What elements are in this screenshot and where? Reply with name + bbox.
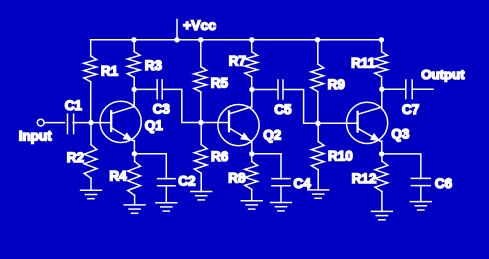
wire emitter node to C6 [382,154,421,179]
node Q2 collector junction [249,87,254,92]
wire base node to Q1 [91,122,111,124]
wire node to C3 [134,88,156,90]
svg-text:Output: Output [421,67,465,82]
wire +Vcc rail [90,39,381,41]
wire emitter node to C2 [134,154,166,179]
wire Q3 emitter to node [381,141,383,154]
ground C4 [271,203,292,211]
node Q2 emitter junction [249,151,254,156]
svg-text:R9: R9 [328,77,345,92]
junction R5 top [198,37,203,42]
resistor R10 [311,123,324,190]
resistor R8 [245,154,258,201]
capacitor C3 [157,80,162,99]
node Q3 emitter junction [379,151,384,156]
svg-text:R7: R7 [229,53,246,68]
svg-text:R10: R10 [328,149,353,164]
svg-text:R5: R5 [211,75,229,90]
resistor R9 [311,40,324,124]
capacitor C7 [406,80,412,99]
svg-text:+Vcc: +Vcc [183,17,216,33]
capacitor C2 [158,179,176,186]
svg-text:Q3: Q3 [391,127,410,142]
ground R8 [241,201,262,209]
ground R12 [372,211,393,219]
wire input to C1 [44,122,64,124]
svg-text:C7: C7 [402,102,419,117]
svg-text:Input: Input [19,128,52,143]
wire R7 to Q2 collector [251,90,253,108]
junction R7 top [249,37,254,42]
wire emitter node to C4 [252,154,281,179]
resistor R4 [128,154,141,205]
node Q3 collector junction [379,87,384,92]
wire C7 to output [412,88,433,90]
wire node to C7 [382,88,406,90]
capacitor C6 [411,178,430,185]
wire R11 to Q3 collector [381,89,383,106]
junction R11 top [379,37,384,42]
input terminal [37,119,44,126]
svg-text:Q2: Q2 [263,127,281,142]
node Q1 emitter junction [132,151,137,156]
svg-text:R6: R6 [211,149,229,164]
node Q2 base junction [198,120,203,125]
junction Vcc stub [174,37,179,42]
transistor Q1 [100,101,141,142]
resistor R2 [84,123,97,191]
capacitor C1 [68,114,74,133]
resistor R7 [245,40,258,90]
ground C6 [410,202,431,210]
ground R2 [81,190,102,198]
junction R3 top [131,37,136,42]
capacitor C5 [278,80,283,99]
svg-text:R2: R2 [67,150,84,165]
capacitor C4 [272,179,290,186]
transistor Q2 [218,105,259,146]
node Q1 base junction [88,120,93,125]
wire Q2 emitter to node [251,141,253,154]
wire C1 to base node [73,122,91,124]
wire C4 to ground [280,186,282,203]
node Q1 collector junction [132,87,137,92]
svg-text:Q1: Q1 [145,118,164,133]
wire C3 to Q2 base [162,89,201,122]
svg-text:R8: R8 [228,171,246,186]
svg-text:C5: C5 [274,102,292,117]
wire C2 to ground [165,186,167,203]
wire base node to Q2 [201,122,229,124]
wire +Vcc stub [176,20,178,40]
resistor R6 [194,123,207,192]
wire Q1 emitter to node [133,141,135,154]
svg-text:C2: C2 [178,174,195,189]
resistor R12 [375,154,388,212]
resistor R5 [194,40,207,123]
ground R10 [308,190,329,198]
svg-text:R4: R4 [109,168,127,183]
wire C5 to Q3 base [284,90,318,124]
svg-text:C1: C1 [65,98,83,113]
node Q3 base junction [315,121,320,126]
resistor R11 [375,40,388,89]
svg-text:C4: C4 [294,176,312,191]
wire node to C5 [252,89,277,91]
svg-text:C6: C6 [435,176,453,191]
ground C2 [156,203,177,211]
junction R9 top [315,37,320,42]
svg-text:R11: R11 [351,56,376,71]
wire R3 to Q1 collector [133,89,135,106]
svg-text:R3: R3 [145,58,163,73]
ground R4 [124,205,145,213]
wire C6 to ground [420,186,422,202]
wire base node to Q3 [318,122,358,124]
resistor R3 [127,40,140,90]
svg-text:C3: C3 [153,101,171,116]
resistor R1 [84,40,97,123]
transistor Q3 [347,102,388,143]
ground R6 [191,192,212,200]
svg-text:R1: R1 [101,64,119,79]
svg-text:R12: R12 [352,171,377,186]
